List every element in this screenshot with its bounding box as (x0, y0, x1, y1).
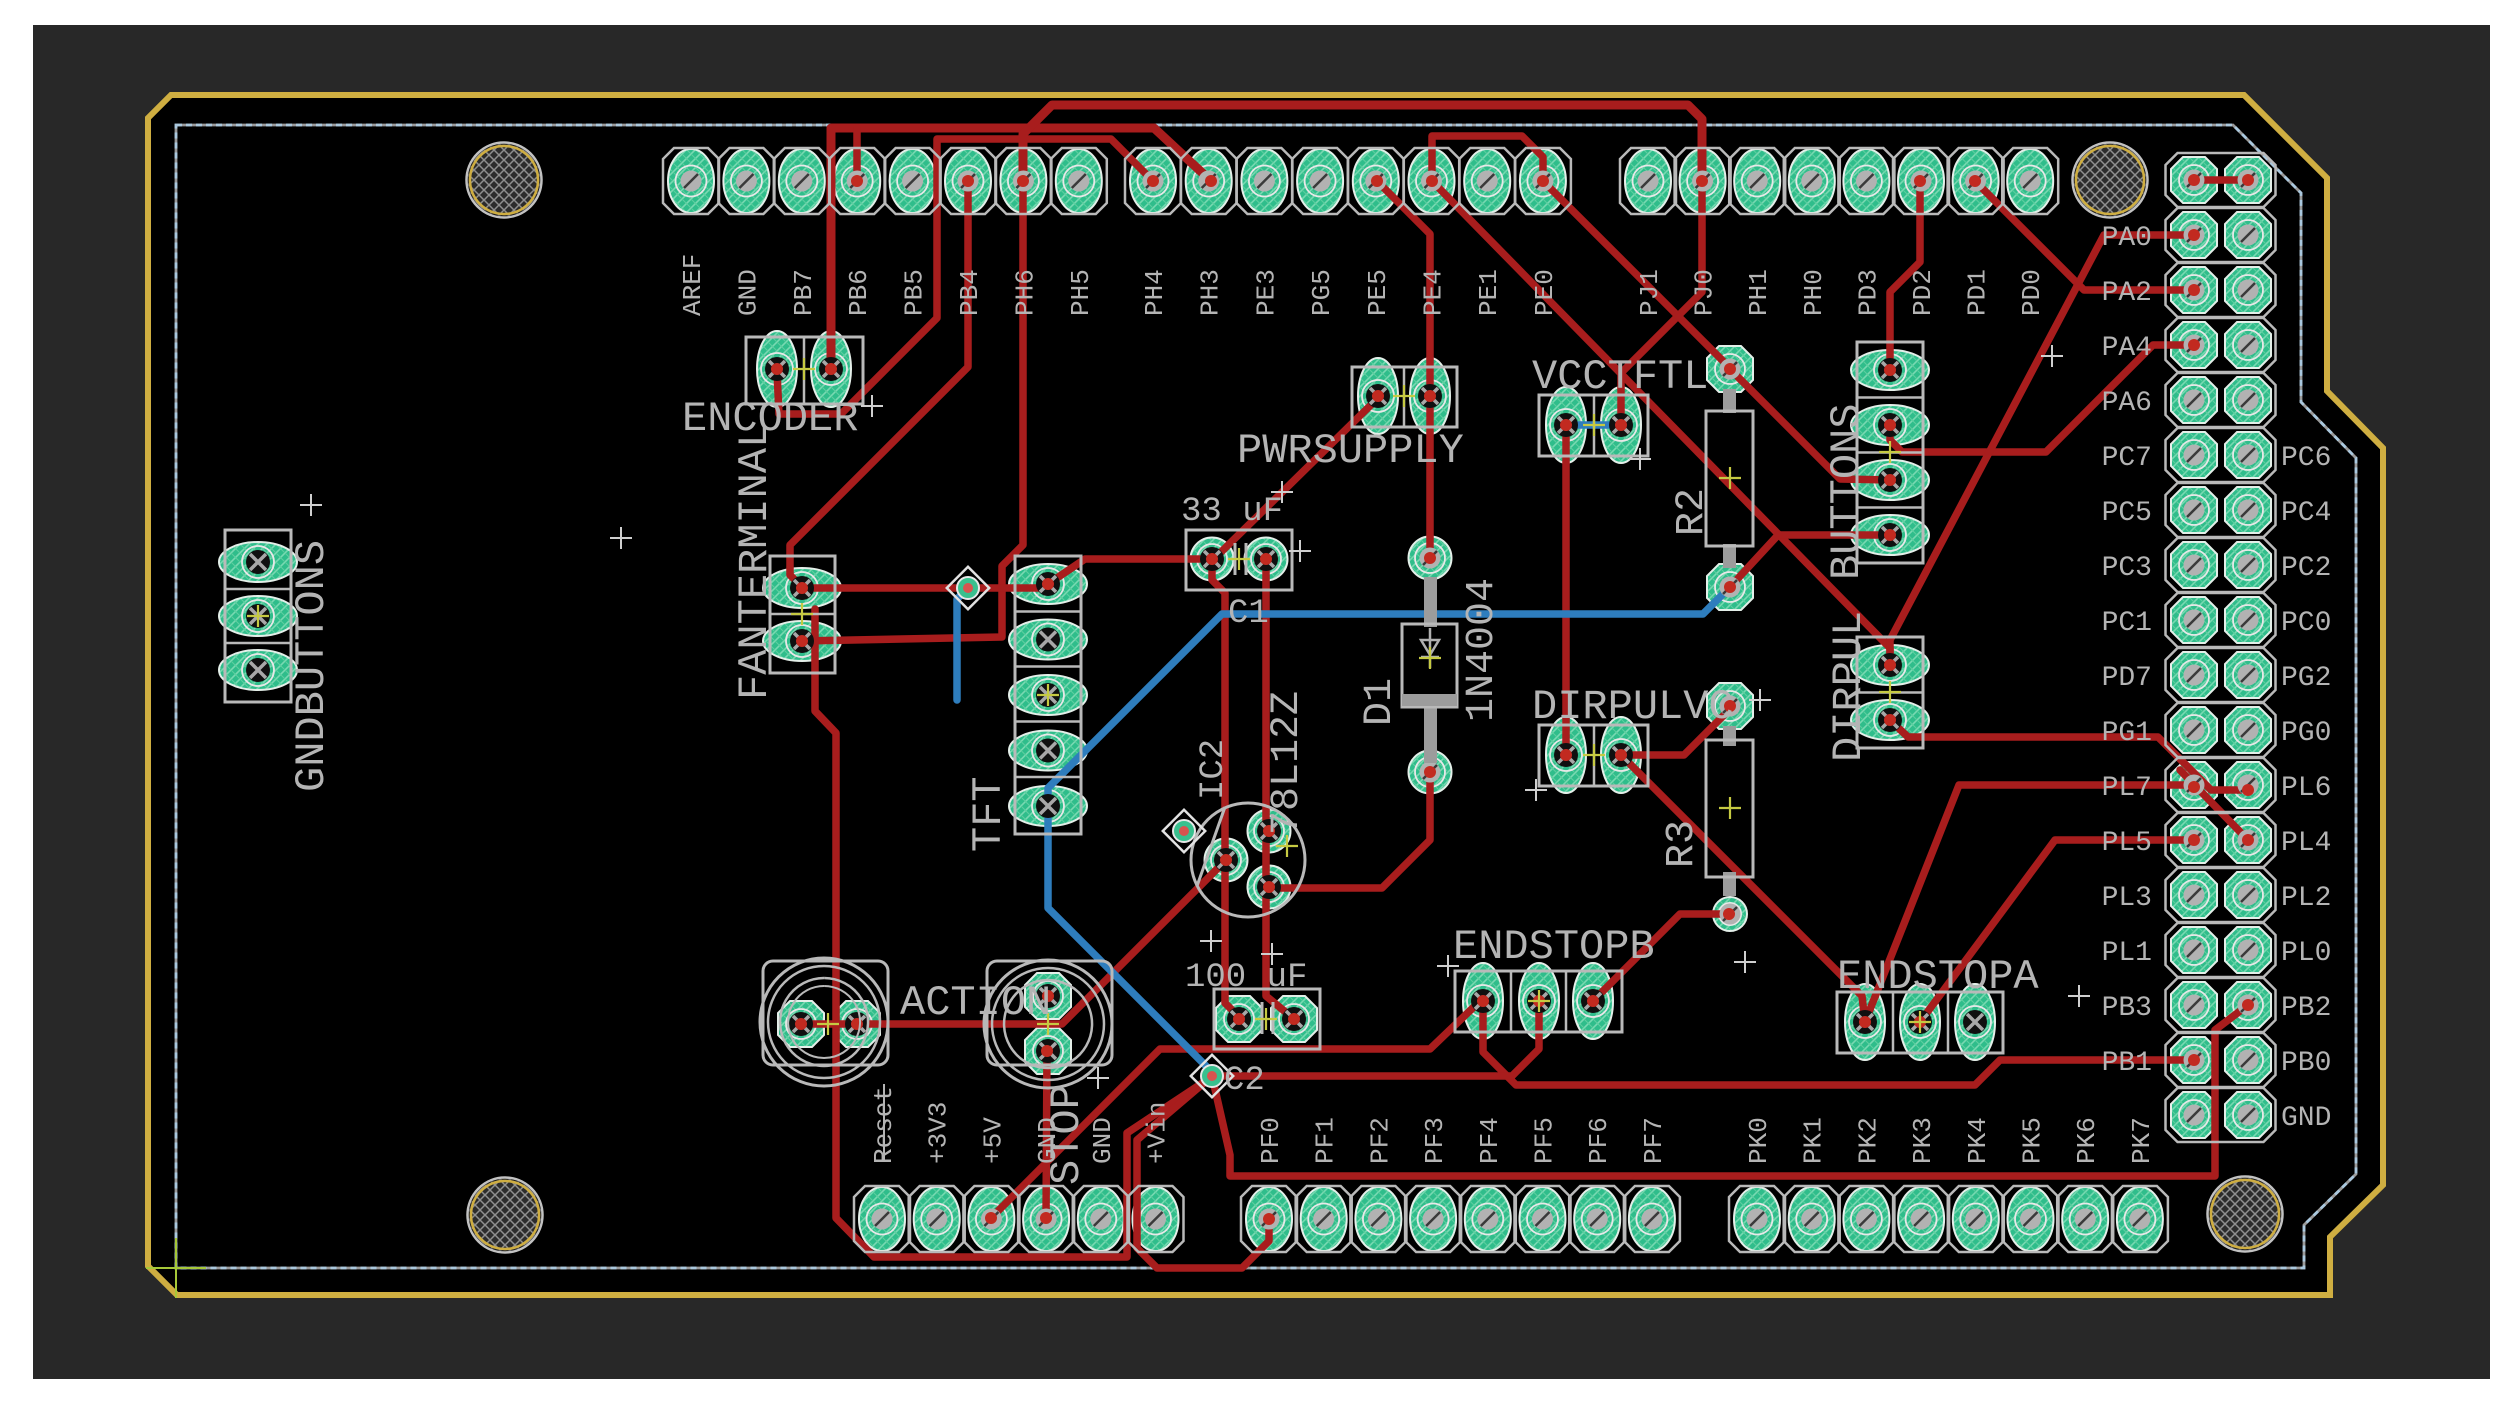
top header pads group1 AREF..PH5 (668, 149, 714, 213)
wire ENDSTOPA.1 to PL7 (1865, 785, 2194, 1022)
button ACTION pads (778, 1001, 824, 1047)
connector ENDSTOPB pads (1463, 963, 1503, 1039)
connector TFT pads (1009, 564, 1087, 604)
connector VCCTFTL pads (1546, 387, 1586, 463)
wire BUTTONS.2 to PA4 (1890, 345, 2194, 452)
svg-text:PB3: PB3 (2102, 993, 2152, 1024)
wire diamond to ENDSTOPB.2 (1212, 1001, 1539, 1076)
svg-text:PL6: PL6 (2281, 773, 2331, 804)
connector DIRPULVC pads (1546, 717, 1586, 793)
svg-text:PK1: PK1 (1799, 1117, 1829, 1164)
svg-text:PL4: PL4 (2281, 828, 2331, 859)
outline GNDBUTTONS (225, 530, 291, 702)
outline DIRPUL (1857, 637, 1923, 748)
outline ENCODER (746, 337, 863, 404)
svg-text:PF4: PF4 (1475, 1117, 1505, 1164)
svg-text:PA2: PA2 (2102, 278, 2152, 309)
Reset overline (883, 1084, 885, 1160)
outline C1 (1186, 530, 1292, 590)
connector ENDSTOPA pads (1845, 984, 1885, 1060)
right connector pads (2171, 157, 2217, 203)
resistor R3 pads (1707, 683, 1753, 729)
capacitor C1 pads (1191, 538, 1234, 581)
svg-text:PC5: PC5 (2102, 498, 2152, 529)
svg-text:PC7: PC7 (2102, 443, 2152, 474)
svg-text:PF5: PF5 (1530, 1117, 1560, 1164)
svg-text:PL0: PL0 (2281, 938, 2331, 969)
svg-text:PE3: PE3 (1251, 269, 1281, 316)
svg-text:GND: GND (733, 269, 763, 316)
svg-text:+5V: +5V (978, 1117, 1008, 1164)
svg-text:PB0: PB0 (2281, 1048, 2331, 1079)
svg-text:PF3: PF3 (1420, 1117, 1450, 1164)
outline TFT header (1015, 556, 1081, 834)
diode D1 pads (1409, 537, 1452, 580)
svg-text:D1: D1 (1358, 678, 1403, 726)
svg-text:PK7: PK7 (2127, 1117, 2157, 1164)
svg-text:+Vin: +Vin (1143, 1102, 1173, 1164)
wire diamond to PB2 (1212, 1005, 2248, 1176)
svg-text:PH0: PH0 (1799, 269, 1829, 316)
svg-text:PL1: PL1 (2102, 938, 2152, 969)
wire C1.1 to C2.1 (1212, 559, 1239, 1017)
svg-text:PE1: PE1 (1474, 269, 1504, 316)
svg-text:PB7: PB7 (789, 269, 819, 316)
mounting hole top-right (2073, 143, 2148, 218)
silkscreen dashed frame (176, 125, 2356, 1268)
svg-text:TFT: TFT (965, 776, 1013, 852)
svg-text:ENDSTOPA: ENDSTOPA (1837, 953, 2039, 1001)
trace connection dots (1205, 175, 1217, 187)
svg-text:GND: GND (2281, 1103, 2331, 1134)
svg-text:PD3: PD3 (1853, 269, 1883, 316)
svg-text:PK0: PK0 (1744, 1117, 1774, 1164)
top header pads group2 PH4..PE0 (1130, 149, 1176, 213)
svg-text:PH5: PH5 (1066, 269, 1096, 316)
wire PWRSUPPLY.2 to D1.1 (1426, 396, 1434, 558)
wire STOP to GND (1046, 1051, 1047, 1218)
board origin marker (146, 1238, 206, 1298)
svg-text:PG0: PG0 (2281, 718, 2331, 749)
outline FANTERMINAL (770, 556, 835, 673)
wire R2 top to BUTTONS.3 (1730, 369, 1890, 480)
svg-text:ACTION: ACTION (900, 979, 1051, 1027)
svg-text:PC3: PC3 (2102, 553, 2152, 584)
svg-text:PG1: PG1 (2102, 718, 2152, 749)
button STOP pads (1025, 973, 1071, 1019)
svg-text:PB6: PB6 (844, 269, 874, 316)
svg-text:PD0: PD0 (2017, 269, 2047, 316)
wire R3 bottom to ENDSTOPB.3 (1593, 914, 1729, 1001)
svg-text:PL3: PL3 (2102, 883, 2152, 914)
svg-text:FANTERMINAL: FANTERMINAL (731, 423, 779, 700)
blue wire VCCTFTL jumper (1566, 421, 1621, 429)
svg-text:PWRSUPPLY: PWRSUPPLY (1237, 427, 1464, 475)
footprint origin crosses (793, 358, 815, 380)
svg-text:DIRPULVC: DIRPULVC (1532, 683, 1734, 731)
wire PH6 to PJ0 (1023, 105, 1702, 181)
svg-text:PF2: PF2 (1365, 1117, 1395, 1164)
svg-text:PE4: PE4 (1419, 269, 1449, 316)
outline ENDSTOPB (1455, 971, 1622, 1032)
outline C2 (1214, 989, 1320, 1049)
drill holes: headers (gray) (681, 171, 702, 192)
right connector row outlines (2166, 153, 2276, 207)
wire VCCTFTL.1 to DIRPULVC.1 (1562, 425, 1570, 755)
drill holes: components (dark) (765, 357, 789, 381)
svg-text:PB5: PB5 (900, 269, 930, 316)
svg-text:PC1: PC1 (2102, 608, 2152, 639)
wire PE4 to PE0 (1432, 136, 1543, 181)
svg-text:PK6: PK6 (2072, 1117, 2102, 1164)
svg-text:PA0: PA0 (2102, 223, 2152, 254)
svg-text:PG2: PG2 (2281, 663, 2331, 694)
svg-text:PJ0: PJ0 (1690, 269, 1720, 316)
svg-text:ENDSTOPB: ENDSTOPB (1453, 923, 1655, 971)
wire FANTERMINAL pad1 - diamond - TFT - C1.1 (802, 584, 1048, 588)
svg-text:PC0: PC0 (2281, 608, 2331, 639)
svg-text:PF1: PF1 (1311, 1117, 1341, 1164)
outline IC2 (TO-92) (1191, 803, 1305, 917)
outline DIRPULVC (1539, 725, 1648, 786)
pin outlines top headers (663, 148, 719, 214)
test point diamond node TP2 (1163, 810, 1205, 852)
wire PD2 to BUTTONS.1 (1890, 181, 1920, 370)
wire PL4 stub (2180, 770, 2248, 840)
outline D1 body (1424, 577, 1437, 627)
svg-text:PB4: PB4 (955, 269, 985, 316)
wire C1.2 to C2.2 (1266, 559, 1294, 1019)
connector GNDBUTTONS pads (219, 542, 297, 582)
wire PJ0 to VCCTFTL.2 (1621, 181, 1702, 425)
svg-text:C2: C2 (1224, 1062, 1265, 1100)
wire PE5 to PWRSUPPLY.2 (1377, 181, 1430, 396)
test point diamond node TP3 (1191, 1055, 1233, 1097)
svg-text:PH3: PH3 (1196, 269, 1226, 316)
connector DIRPUL pads (1851, 645, 1929, 685)
connector ENCODER pads (757, 331, 797, 407)
svg-text:PF0: PF0 (1256, 1117, 1286, 1164)
wire R2 bottom to BUTTONS.4 (1730, 535, 1890, 587)
svg-text:PC6: PC6 (2281, 443, 2331, 474)
blue wire R2 bottom to diamond C2 (1048, 587, 1730, 1072)
outline R3 body (1723, 726, 1736, 746)
wire PWRSUPPLY.1 to C1.1 (1216, 398, 1378, 557)
wire IC2.2 to ACTION (801, 860, 1226, 1024)
mounting hole bottom-left (468, 1178, 543, 1253)
svg-text:100 uF: 100 uF (1185, 959, 1307, 997)
svg-text:PK2: PK2 (1853, 1117, 1883, 1164)
svg-text:PB2: PB2 (2281, 993, 2331, 1024)
wire encoder-PB6-PH3 net (831, 128, 1211, 369)
svg-text:PL2: PL2 (2281, 883, 2331, 914)
connector BUTTONS pads (1851, 350, 1929, 390)
svg-text:1N4004: 1N4004 (1460, 578, 1505, 722)
wire PH4 to encoder pad1 (777, 139, 1153, 414)
wire PA0 to DIRPUL.1 (1890, 235, 2194, 665)
svg-text:BUTTONS: BUTTONS (1823, 404, 1871, 580)
wire DIRPUL.2 to PL6 (1890, 720, 2248, 790)
svg-text:PE0: PE0 (1530, 269, 1560, 316)
wire PB4 to FANTERMINAL pad1 (790, 181, 968, 588)
wire PE0 to R2 top (1543, 181, 1730, 368)
svg-text:PF7: PF7 (1639, 1117, 1669, 1164)
svg-text:DIRPUL: DIRPUL (1825, 611, 1873, 762)
outline ENDSTOPA (1837, 992, 2003, 1053)
svg-text:PF6: PF6 (1584, 1117, 1614, 1164)
wire +5V to ENDSTOPB.1 (991, 1001, 1483, 1218)
pin outlines bottom headers (854, 1186, 910, 1252)
wire DIRPULVC.2 to R3 top (1621, 709, 1730, 755)
outline BUTTONS (1857, 342, 1923, 563)
svg-text:33 uF: 33 uF (1181, 493, 1283, 531)
resistor R2 pads (1707, 346, 1753, 392)
silkscreen reference crosses (861, 395, 883, 417)
wire ENDSTOPB.1 to PB1 (1483, 1001, 2194, 1085)
bottom header pads group3 PK0..PK7 (1734, 1187, 1780, 1251)
svg-text:PG5: PG5 (1307, 269, 1337, 316)
svg-text:GNDBUTTONS: GNDBUTTONS (288, 540, 336, 792)
svg-text:PD2: PD2 (1908, 269, 1938, 316)
svg-text:R2: R2 (1670, 488, 1715, 536)
svg-text:GND: GND (1088, 1117, 1118, 1164)
wire ENDSTOPA.2 to PL5 (1920, 840, 2194, 1022)
svg-text:PA6: PA6 (2102, 388, 2152, 419)
connector PWRSUPPLY pads (1358, 358, 1398, 434)
svg-text:PA4: PA4 (2102, 333, 2152, 364)
svg-text:AREF: AREF (678, 254, 708, 316)
svg-text:VCCTFTL: VCCTFTL (1532, 353, 1708, 401)
svg-text:+3V3: +3V3 (924, 1102, 954, 1164)
svg-text:PK4: PK4 (1963, 1117, 1993, 1164)
regulator IC2 pads (1248, 810, 1291, 853)
svg-text:PK5: PK5 (2018, 1117, 2048, 1164)
svg-text:R3: R3 (1660, 820, 1705, 868)
svg-text:PH4: PH4 (1140, 269, 1170, 316)
bottom header pads group2 PF0..PF7 (1246, 1187, 1292, 1251)
outline ACTION (763, 961, 888, 1065)
board edge (Edge.Cuts) (148, 95, 2383, 1295)
svg-text:PB1: PB1 (2102, 1048, 2152, 1079)
test point diamond node TP1 (947, 567, 989, 609)
svg-text:C1: C1 (1228, 595, 1269, 633)
wire D1.2 to IC2.3 (1269, 772, 1430, 888)
wire frame to PF0 (1137, 1076, 1269, 1268)
mounting hole top-left (467, 143, 542, 218)
outline R2 body (1723, 389, 1736, 413)
svg-text:PD7: PD7 (2102, 663, 2152, 694)
blue wire diamond stub (957, 588, 968, 700)
svg-text:PE5: PE5 (1363, 269, 1393, 316)
svg-text:PL5: PL5 (2102, 828, 2152, 859)
connector FANTERMINAL pads (763, 568, 841, 608)
svg-text:PH6: PH6 (1010, 269, 1040, 316)
svg-text:PD1: PD1 (1963, 269, 1993, 316)
top header pads group3 PJ1..PD0 (1625, 149, 1671, 213)
wire DIRPULVC.2 to ENDSTOPA.1 (1621, 755, 1865, 1022)
svg-text:78L12Z: 78L12Z (1265, 691, 1310, 835)
drill holes: D1,R2,R3 (gray) (1420, 548, 1441, 569)
svg-text:PC2: PC2 (2281, 553, 2331, 584)
mounting hole bottom-right (2208, 1177, 2283, 1252)
svg-text:PH1: PH1 (1744, 269, 1774, 316)
outline STOP (987, 961, 1112, 1065)
wire PD1 to PA2 (1975, 181, 2194, 290)
svg-text:PC4: PC4 (2281, 498, 2331, 529)
svg-text:STOP: STOP (1043, 1084, 1091, 1185)
wire PE4 to DIRPUL.1 (1432, 181, 1890, 665)
capacitor C2 pads (1216, 996, 1262, 1042)
wire left frame outer (815, 609, 1210, 1257)
outline PWRSUPPLY (1352, 367, 1457, 427)
outline VCCTFTL (1539, 395, 1648, 456)
svg-text:PK3: PK3 (1908, 1117, 1938, 1164)
wire PH6 to FANTERMINAL pad2 (802, 181, 1023, 641)
svg-text:IC2: IC2 (1195, 739, 1233, 800)
wire right row0 jumper (2194, 176, 2248, 184)
bottom header pads group1 Reset..+Vin (859, 1187, 905, 1251)
svg-text:PJ1: PJ1 (1635, 269, 1665, 316)
svg-text:PL7: PL7 (2102, 773, 2152, 804)
